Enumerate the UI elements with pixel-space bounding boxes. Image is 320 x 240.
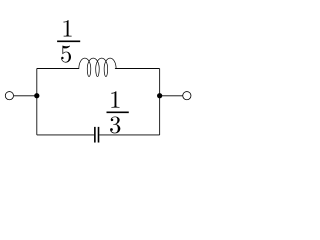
wire: bottom rail right segment bbox=[99, 134, 159, 136]
label: C1 value numerator 1 bbox=[111, 91, 119, 107]
label: C1 value denominator 3 bbox=[110, 116, 120, 133]
wire: right terminal lead bbox=[160, 95, 183, 97]
terminal right (open circle) bbox=[183, 92, 191, 100]
wire: left terminal lead bbox=[14, 95, 37, 97]
label: L1 value fraction bar bbox=[57, 41, 80, 43]
capacitor C1 plate left bbox=[94, 127, 96, 143]
node junction dot left bbox=[34, 93, 39, 98]
wire: top rail right segment bbox=[115, 68, 160, 70]
capacitor C1 plate right bbox=[98, 127, 100, 143]
wire: inductor lead stubs (top rail under coil) bbox=[36, 67, 159, 69]
label: L1 value numerator 1 bbox=[63, 20, 71, 36]
node junction dot right bbox=[157, 93, 162, 98]
terminal left (open circle) bbox=[5, 92, 13, 100]
label: C1 value fraction bar bbox=[106, 112, 128, 114]
wire: top rail left segment bbox=[37, 68, 79, 70]
label: L1 value denominator 5 bbox=[61, 46, 71, 63]
inductor L1 (value 1/5) coil bbox=[79, 58, 116, 76]
wire: right vertical branch bbox=[159, 69, 161, 135]
wire: bottom rail left segment bbox=[37, 134, 94, 136]
wire: left vertical branch bbox=[36, 69, 38, 135]
